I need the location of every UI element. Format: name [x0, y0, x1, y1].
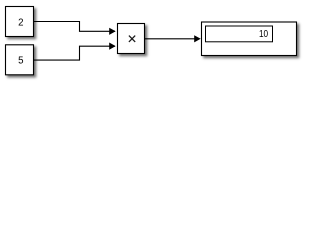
constant block C2 (value 5)	[6, 45, 34, 75]
svg-text:10: 10	[259, 27, 268, 39]
product block P1 (multiply)	[118, 24, 145, 54]
svg-text:2: 2	[18, 17, 23, 28]
display block D1 (value 10)	[202, 22, 297, 56]
wire W3 from P1 output to D1 input	[145, 35, 201, 42]
svg-text:5: 5	[18, 56, 23, 67]
constant block C1 (value 2)	[6, 7, 34, 37]
wire W1 from C1 to P1 input 1	[34, 22, 116, 35]
wire W2 from C2 to P1 input 2	[34, 43, 116, 61]
